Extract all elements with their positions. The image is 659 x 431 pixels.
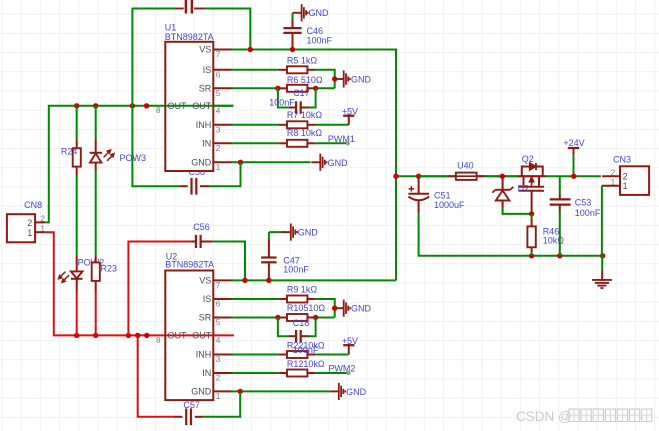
- capacitor C57: [195, 416, 203, 418]
- svg-text:IN: IN: [202, 368, 211, 378]
- node rail junction at D2: [500, 174, 505, 179]
- node GND1 junction at C58 branch: [238, 160, 243, 165]
- wire INH1 to R7: [232, 124, 279, 126]
- node bottom rail junction at C53: [557, 253, 562, 258]
- wire OUT2 net (highlighted red): CN8 pin1 down, bottom bus through U2 pin8/pin4: [45, 232, 234, 335]
- resistor R5 1k: [278, 69, 287, 71]
- svg-text:3: 3: [216, 354, 221, 364]
- supply +5V symbol (U2): [343, 344, 354, 346]
- wire C51 bottom to bottom rail: [419, 214, 603, 256]
- node PWM1 port dot: [346, 141, 350, 145]
- wire C55 right branch down to VS1: [205, 9, 251, 50]
- supply +5V symbol (U1): [343, 115, 354, 117]
- svg-text:R5 1kΩ: R5 1kΩ: [287, 55, 318, 65]
- capacitor C51 1000uF (polarized): [418, 176, 420, 194]
- capacitor C17 100nF: [288, 107, 296, 109]
- svg-text:OUT: OUT: [192, 101, 212, 111]
- node VS1 junction at C55 branch: [248, 47, 253, 52]
- svg-text:5: 5: [216, 317, 221, 327]
- LED POW3 (pointing up): [95, 106, 97, 140]
- svg-text:CSDN @: CSDN @: [516, 409, 572, 424]
- node C17 right junction: [313, 86, 318, 91]
- pin stub U1.2 IN: [213, 142, 231, 144]
- svg-text:R8 10kΩ: R8 10kΩ: [287, 128, 323, 138]
- wire rail fuse to Q2: [485, 175, 518, 177]
- wire C57 right branch: [203, 391, 240, 416]
- node C18 right junction: [313, 315, 318, 320]
- wire R22 to +5V: [316, 354, 349, 356]
- svg-text:1000uF: 1000uF: [434, 200, 465, 210]
- svg-text:1: 1: [611, 177, 616, 187]
- svg-text:OUT: OUT: [168, 331, 188, 341]
- zener diode D2: [502, 176, 504, 190]
- ground symbol at R5/R6 tap: [335, 78, 344, 80]
- resistor R12 10k: [278, 372, 287, 374]
- node rail junction at +24V: [571, 174, 576, 179]
- node OUT2 bus junction at POW2: [74, 333, 79, 338]
- svg-text:POW3: POW3: [120, 153, 147, 163]
- svg-text:BTN8982TA: BTN8982TA: [165, 260, 214, 270]
- svg-text:OUT: OUT: [168, 101, 188, 111]
- node bottom rail junction at R46: [529, 253, 534, 258]
- svg-text:R24: R24: [61, 146, 78, 156]
- svg-text:IN: IN: [202, 139, 211, 149]
- svg-text:5: 5: [216, 88, 221, 98]
- svg-text:100nF: 100nF: [293, 345, 319, 355]
- svg-text:OUT: OUT: [192, 331, 212, 341]
- wire INH2 to R22: [232, 354, 279, 356]
- svg-text:R1210kΩ: R1210kΩ: [287, 359, 325, 369]
- svg-text:3: 3: [216, 124, 221, 134]
- capacitor C18 100nF: [288, 335, 296, 337]
- wire R6 right to GND tap: [316, 87, 335, 89]
- wire VS1 net: U1 pin7 to right rail vertical down to VS2: [232, 50, 397, 281]
- wire VS2 net: U2 pin7 to right rail vertical: [232, 279, 397, 281]
- svg-text:4: 4: [216, 105, 221, 115]
- wire IN1 to R8: [232, 142, 279, 144]
- svg-text:CN8: CN8: [24, 200, 42, 210]
- node OUT1 bus junction near pin 8: [144, 103, 149, 108]
- wire GND2 net: [232, 390, 330, 392]
- svg-text:10kΩ: 10kΩ: [543, 236, 565, 246]
- wire R5 right to GND tap vertical: [316, 70, 335, 89]
- wire OUT2 line through U2 box: [165, 334, 213, 336]
- svg-text:6: 6: [216, 69, 221, 79]
- svg-text:100nF: 100nF: [269, 98, 295, 108]
- svg-text:2: 2: [611, 167, 616, 177]
- wire CN3 pin1 to bottom rail: [601, 186, 603, 256]
- svg-text:INH: INH: [196, 350, 212, 360]
- IC U1 BTN8982TA box: [165, 42, 213, 171]
- pin stub U2.6 IS: [213, 298, 231, 300]
- wire R23 bottom to OUT2 bus: [95, 292, 97, 335]
- wire C58 right branch: [209, 162, 241, 186]
- wire POW3 bottom to R23 top: [95, 171, 97, 257]
- node C18 left junction: [275, 315, 280, 320]
- pin stub U1.3 INH: [213, 124, 231, 126]
- svg-text:CN3: CN3: [613, 154, 631, 164]
- resistor R7 10k: [278, 124, 287, 126]
- svg-text:2: 2: [216, 373, 221, 383]
- svg-text:2: 2: [40, 213, 45, 223]
- svg-text:C57: C57: [183, 400, 200, 410]
- wire C18 right vertical: [309, 318, 316, 337]
- ground symbol at U2 GND: [330, 390, 339, 392]
- node OUT2 bus junction near pin 8: [144, 333, 149, 338]
- node GND tap of R5/R6: [332, 76, 337, 81]
- svg-text:2: 2: [27, 218, 32, 228]
- C51 plus sign: [409, 188, 415, 190]
- node OUT2 bus junction at C56 branch: [126, 333, 131, 338]
- earth ground symbol at bottom rail: [601, 256, 603, 271]
- node GND2 junction at C57 branch: [238, 389, 243, 394]
- node bottom rail junction at CN3 pin1 / earth: [600, 253, 605, 258]
- svg-text:SR: SR: [199, 84, 212, 94]
- wire SR1 to R6: [232, 87, 279, 89]
- svg-text:1: 1: [623, 181, 628, 191]
- wire GND1 net: [232, 161, 311, 163]
- svg-text:BTN8982TA: BTN8982TA: [165, 32, 214, 42]
- pin stub U2.2 IN: [213, 372, 231, 374]
- capacitor C55 (top, partially cut off): [176, 8, 184, 10]
- svg-text:GND: GND: [191, 387, 212, 397]
- wire R9 right to GND tap vertical: [316, 299, 335, 318]
- resistor R8 10k: [278, 142, 287, 144]
- svg-text:C56: C56: [193, 222, 210, 232]
- wire IS2 to R9: [232, 298, 279, 300]
- pin stub CN8.2: [35, 221, 45, 223]
- node GND tap of R9/R10: [332, 306, 337, 311]
- ground symbol above C47: [282, 231, 291, 233]
- svg-text:INH: INH: [196, 120, 212, 130]
- supply +24V symbol: [568, 147, 579, 149]
- LED POW3 emission arrows: [104, 152, 110, 158]
- transistor Q2 P-MOSFET: [517, 175, 545, 177]
- svg-text:7: 7: [216, 49, 221, 59]
- pin stub U2.1 GND: [213, 390, 231, 392]
- svg-text:PWM1: PWM1: [328, 134, 355, 144]
- node OUT2 bus junction at R23: [93, 333, 98, 338]
- svg-text:GND: GND: [351, 75, 372, 85]
- svg-text:+24V: +24V: [563, 138, 584, 148]
- pin stub CN8.1: [35, 231, 45, 233]
- pin stub CN3.1: [602, 185, 620, 187]
- ground symbol above C46: [293, 12, 302, 14]
- connector CN3 box: [620, 166, 649, 195]
- wire C17 right vertical: [309, 88, 316, 107]
- svg-text:1: 1: [216, 391, 221, 401]
- wire OUT1 line through U1 box: [165, 105, 213, 107]
- wire R24 bottom to POW2 top: [76, 175, 78, 256]
- node OUT2 bus junction at C57 branch: [135, 333, 140, 338]
- svg-text:8: 8: [156, 336, 161, 345]
- svg-text:SR: SR: [199, 313, 212, 323]
- svg-text:7: 7: [216, 280, 221, 290]
- svg-text:C18: C18: [293, 318, 310, 328]
- svg-text:2: 2: [216, 143, 221, 153]
- resistor R6 510: [278, 87, 287, 89]
- IC U2 BTN8982TA box: [165, 271, 213, 401]
- svg-text:VS: VS: [199, 45, 211, 55]
- capacitor C53 100nF: [559, 176, 561, 193]
- resistor R23 (vertical): [95, 256, 97, 263]
- wire POW2 bottom to OUT2 bus: [76, 293, 78, 336]
- node gate/zener/R46 junction: [529, 211, 534, 216]
- capacitor C56: [190, 241, 196, 243]
- svg-text:GND: GND: [191, 158, 212, 168]
- wire OUT1 pin4 stub: [213, 105, 233, 107]
- svg-text:100nF: 100nF: [283, 265, 309, 275]
- capacitor C46 100nF: [292, 33, 294, 50]
- capacitor C47 100nF: [268, 263, 270, 280]
- svg-text:IS: IS: [203, 65, 212, 75]
- wire C57 left branch (red) to OUT2 bus: [138, 335, 174, 416]
- svg-text:1: 1: [27, 228, 32, 238]
- node VS1 junction at C46: [290, 47, 295, 52]
- wire D2 bottom to gate node: [503, 208, 532, 214]
- svg-text:100nF: 100nF: [307, 35, 333, 45]
- svg-text:8: 8: [156, 106, 161, 115]
- wire OUT1 net: CN8 pin2 up to top bus through U1 pin8/pin4: [45, 106, 234, 223]
- fuse U40: [420, 175, 449, 177]
- node rail junction at C51: [416, 174, 421, 179]
- svg-text:R23: R23: [101, 264, 118, 274]
- svg-text:U40: U40: [457, 160, 474, 170]
- svg-text:C53: C53: [575, 197, 592, 207]
- svg-text:4: 4: [216, 335, 221, 345]
- resistor R24 (vertical): [76, 106, 78, 141]
- wire C58 left branch to OUT1 bus: [132, 106, 179, 186]
- resistor R10 510: [278, 317, 287, 319]
- svg-text:2: 2: [623, 172, 628, 182]
- wire SR2 to R10: [232, 317, 279, 319]
- svg-text:6: 6: [216, 299, 221, 309]
- capacitor C58: [200, 185, 209, 187]
- wire C55 left branch: OUT1 bus up to top cap: [132, 9, 175, 106]
- node OUT1 bus junction at POW3: [93, 103, 98, 108]
- wire R10 right to GND tap: [316, 317, 335, 319]
- wire R12 to PWM2 port: [316, 372, 347, 374]
- wire IS1 to R5: [232, 69, 279, 71]
- wire IN2 to R12: [232, 372, 279, 374]
- node OUT1 bus junction at R24: [74, 103, 79, 108]
- wire +24V rail from VS vertical to CN3 pin2: [396, 175, 601, 177]
- ground symbol at U1 GND: [311, 161, 320, 163]
- svg-text:GND: GND: [346, 387, 367, 397]
- svg-text:C17: C17: [293, 88, 310, 98]
- svg-text:R10510Ω: R10510Ω: [287, 303, 326, 313]
- svg-text:Q2: Q2: [522, 154, 534, 164]
- wire C17 left vertical: [278, 88, 288, 107]
- ground symbol at R9/R10 tap: [335, 307, 344, 309]
- connector CN8 box: [7, 214, 35, 242]
- svg-text:GND: GND: [298, 228, 319, 238]
- svg-text:R6 510Ω: R6 510Ω: [287, 75, 323, 85]
- pin stub U2.5 SR: [213, 317, 231, 319]
- wire R7 to +5V: [316, 124, 349, 126]
- pin stub U2.3 INH: [213, 354, 231, 356]
- wire C47 top to ground: [269, 231, 285, 233]
- pin stub U2.7 VS: [213, 279, 231, 281]
- wire C56 left branch (red) from OUT2 bus: [128, 242, 190, 336]
- resistor R22 10k: [278, 354, 287, 356]
- svg-text:GND: GND: [351, 304, 372, 314]
- node rail junction at VS vertical: [393, 174, 398, 179]
- resistor R9 1k: [278, 298, 287, 300]
- svg-text:R9 1kΩ: R9 1kΩ: [287, 285, 318, 295]
- svg-text:100nF: 100nF: [575, 208, 601, 218]
- wire R8 to PWM1 port: [316, 142, 347, 144]
- node VS2 junction at C56 branch: [242, 278, 247, 283]
- wire C18 left vertical: [278, 318, 288, 337]
- pin stub U1.1 GND: [213, 161, 231, 163]
- pin stub U1.6 IS: [213, 69, 231, 71]
- node PWM2 port dot: [346, 371, 350, 375]
- pin stub U1.7 VS: [213, 49, 231, 51]
- pin stub U1.5 SR: [213, 87, 231, 89]
- node OUT1 bus junction at C55/C58 branch: [130, 103, 135, 108]
- svg-text:+5V: +5V: [342, 107, 358, 117]
- node VS2 junction at C47: [266, 278, 271, 283]
- svg-text:IS: IS: [203, 294, 212, 304]
- LED POW2 emission arrows: [63, 275, 69, 281]
- pin stub CN3.2: [602, 175, 620, 177]
- watermark chinese glyph boxes: [569, 409, 579, 421]
- svg-text:R7 10kΩ: R7 10kΩ: [287, 110, 323, 120]
- node C17 left junction: [275, 86, 280, 91]
- resistor R46 10k (vertical): [531, 214, 533, 219]
- svg-text:VS: VS: [199, 276, 211, 286]
- svg-text:GND: GND: [309, 8, 330, 18]
- wire C56 right branch down to VS2: [213, 242, 245, 281]
- svg-text:D2: D2: [518, 183, 530, 193]
- LED POW2 (pointing down): [76, 256, 78, 271]
- svg-text:1: 1: [216, 162, 221, 172]
- svg-text:+5V: +5V: [342, 336, 358, 346]
- svg-text:GND: GND: [328, 158, 349, 168]
- svg-text:PWM2: PWM2: [328, 364, 355, 374]
